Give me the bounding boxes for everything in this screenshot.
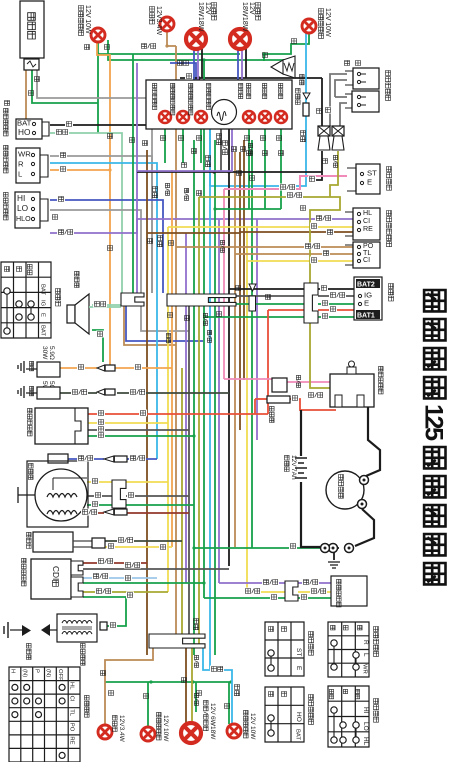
wire label 绿 <box>96 331 104 338</box>
lamp headlamp right <box>230 29 250 49</box>
wire gray from flasher to junction <box>37 70 152 293</box>
svg-text:18W: 18W <box>241 17 249 32</box>
resistor 30W <box>41 346 48 360</box>
wire orange turn switch <box>50 170 110 368</box>
lamp license plate <box>98 725 112 739</box>
wire label 绿 <box>197 136 202 141</box>
wire tan trunk vertical <box>175 46 177 634</box>
wire label 棕 <box>35 77 40 82</box>
wire rear right turn cyan <box>203 648 232 724</box>
wire label 茶 <box>343 60 351 67</box>
wire label 茶 <box>148 239 153 244</box>
wire label 绿 <box>91 501 99 508</box>
switch dimmer HI LO HLO box <box>15 192 40 228</box>
wire orange from front-left turn lamp <box>97 42 110 170</box>
wire label 绿 <box>159 544 167 551</box>
wire label 绿/黄 <box>286 192 303 199</box>
svg-text:12V3.4W: 12V3.4W <box>155 6 163 35</box>
wire label 天蓝 <box>217 134 222 145</box>
svg-text:HLO: HLO <box>16 215 31 223</box>
light control switch box lower <box>353 242 380 268</box>
wire label 绿 <box>300 594 308 601</box>
wire label 浅绿 <box>93 301 107 308</box>
spark plug <box>50 629 57 631</box>
wire label 橙 <box>168 313 173 318</box>
label starter switch <box>387 167 392 191</box>
wire position lamp tan <box>167 31 176 46</box>
lamp front-left turn signal 12V10W <box>91 28 105 42</box>
svg-text:30W: 30W <box>41 346 48 360</box>
svg-text:12V: 12V <box>162 715 169 727</box>
wire red trunk from regulator <box>88 413 268 415</box>
label main switch <box>389 284 394 302</box>
wire white bus drop to horn1 <box>321 78 323 126</box>
wire resistor1 orange row <box>60 367 97 369</box>
wire green-yellow to relay <box>310 224 330 388</box>
labels instrument cluster <box>152 83 156 109</box>
wire label 绿 <box>245 136 250 141</box>
wire black to main switch BAT2 <box>229 288 304 290</box>
wire rear right green stem <box>228 682 230 724</box>
lamp rear-right turn <box>227 724 241 738</box>
main switch contact table <box>1 262 51 338</box>
label regulator <box>28 408 33 436</box>
wire label 蓝 <box>57 196 65 203</box>
wire label 天蓝 <box>153 187 158 198</box>
wire label 棕 <box>266 295 271 300</box>
wire trigger blue-yellow row <box>68 458 104 460</box>
wire label 天蓝 <box>301 131 306 142</box>
svg-text:PO: PO <box>69 723 75 732</box>
wire label 绿 <box>289 543 297 550</box>
wire top green bus from front lamps <box>98 42 240 54</box>
wire green from flasher <box>32 70 98 103</box>
wire label 茶 <box>263 151 268 156</box>
wire label 绿 <box>105 45 110 50</box>
label brake switches <box>386 71 391 101</box>
wire label 白 <box>127 492 135 499</box>
wire label 橙 <box>77 364 85 371</box>
svg-text:BAT: BAT <box>295 729 301 740</box>
wire label 绿 <box>179 136 184 141</box>
wire label 黑 <box>324 107 332 114</box>
wire label 茶 <box>197 191 202 196</box>
wire magneto white out <box>87 495 112 497</box>
wire label 黄 <box>217 312 222 317</box>
wire label 橙 <box>59 166 67 173</box>
speedometer dial <box>212 100 237 125</box>
wire label 绿 <box>161 136 166 141</box>
svg-text:R: R <box>362 640 369 645</box>
light control switch box upper <box>353 208 380 240</box>
svg-text:5.9Ω: 5.9Ω <box>48 346 55 360</box>
svg-text:12V: 12V <box>84 5 92 18</box>
regulator rectifier box <box>35 408 88 444</box>
wire fuel gauge green <box>204 597 285 599</box>
svg-text:LO: LO <box>362 722 369 731</box>
wire CDI green <box>83 582 204 584</box>
wire gray dimmer W <box>50 156 152 293</box>
magneto coils <box>47 494 77 498</box>
switch turn WR R L box <box>16 148 40 183</box>
wire license lamp tan feed <box>105 648 153 725</box>
wire label 棕 <box>108 134 113 139</box>
svg-text:RE: RE <box>363 225 373 233</box>
wire label 茶/白 <box>304 243 321 250</box>
wire label 黄 <box>310 257 318 264</box>
junction connector long <box>167 294 236 306</box>
svg-text:LO: LO <box>17 203 29 213</box>
wire label 天蓝 <box>194 619 199 630</box>
wire label 茶 <box>232 147 237 152</box>
svg-text:125: 125 <box>420 404 448 441</box>
wire gray below junction <box>141 306 189 331</box>
magneto assembly <box>27 461 88 527</box>
battery 12V7Ah <box>295 458 307 478</box>
label starter relay <box>379 366 384 394</box>
turn flasher horn symbol <box>271 56 295 78</box>
wire label 绿/黑 <box>129 389 146 396</box>
starter motor <box>326 471 364 509</box>
svg-text:IG: IG <box>40 300 46 307</box>
svg-text:L: L <box>362 653 369 657</box>
wire label 绿/黄 <box>194 693 198 705</box>
trigger pickup box <box>48 454 68 463</box>
table turn switch <box>328 622 369 677</box>
label horn <box>75 271 80 287</box>
wire label 黄/白 <box>244 588 261 595</box>
wire label 绿/黄 <box>333 155 337 167</box>
wire right turn lamp green <box>264 33 309 61</box>
wire label 天蓝 <box>166 333 170 342</box>
side labels left switches <box>4 108 9 135</box>
wire label 茶 <box>279 151 284 156</box>
wire magneto green out <box>87 504 194 506</box>
wire label 茶 <box>237 171 242 176</box>
wire label 绿 <box>270 594 278 601</box>
flasher relay box <box>20 1 44 58</box>
fuel gauge connector <box>285 581 298 601</box>
svg-text:18W: 18W <box>197 2 205 17</box>
flasher connector <box>24 59 39 70</box>
svg-text:BAT: BAT <box>40 284 46 295</box>
magneto shaft <box>18 494 35 496</box>
node white junction <box>197 76 200 79</box>
svg-text:CDI: CDI <box>51 566 61 580</box>
wire label 黑/红 <box>97 558 114 565</box>
wire green bus under cluster <box>215 208 281 210</box>
wire label 蓝/白 <box>184 188 188 200</box>
wire label 蓝/白 <box>207 330 211 342</box>
svg-text:10W: 10W <box>324 22 332 37</box>
starter relay box <box>330 374 374 407</box>
label headlamp right <box>256 3 261 21</box>
wire starter unit yellow <box>105 546 172 548</box>
label front-right turn lamp <box>319 9 324 39</box>
main switch connector <box>304 283 318 323</box>
ignition coil box <box>57 614 97 642</box>
ring terminals <box>360 476 369 485</box>
wire label 绿 <box>97 432 105 439</box>
svg-text:HO: HO <box>18 127 31 137</box>
svg-text:HL: HL <box>363 209 372 217</box>
wire label 茶 <box>185 316 190 321</box>
wire rear-left turn green stem <box>147 682 149 727</box>
wire label 黄/白 <box>248 143 252 155</box>
svg-text:ST: ST <box>295 648 302 656</box>
wire pink to relay <box>224 378 272 380</box>
label CDI <box>22 558 27 586</box>
wire yellow to CI <box>168 226 353 228</box>
svg-text:CI: CI <box>69 696 75 702</box>
wire magneto black-red out <box>87 512 104 514</box>
wire label 浅绿 <box>55 129 69 136</box>
wire tan-white to PO <box>176 246 353 248</box>
junction connector small <box>121 293 144 306</box>
wire battery feed <box>300 410 302 456</box>
svg-text:WR: WR <box>18 150 31 159</box>
wire label 黑 <box>308 176 316 183</box>
svg-text:18W: 18W <box>197 17 205 32</box>
wire label 绿 <box>261 136 266 141</box>
wire label 红 <box>97 410 105 417</box>
wire label 黑/白 <box>124 562 141 569</box>
wire label 棕 <box>241 147 246 152</box>
svg-text:(N): (N) <box>45 669 51 677</box>
wire blue below junction <box>126 306 203 341</box>
node junctions <box>96 52 99 55</box>
wire label 黑 <box>320 285 328 292</box>
wire label 黑 <box>317 109 322 114</box>
svg-text:TL: TL <box>69 709 75 717</box>
label magneto <box>29 463 34 479</box>
wire relay to motor rings <box>366 407 380 476</box>
wire label 白 <box>51 214 59 221</box>
wire label 黄/白 <box>165 183 169 195</box>
wire label 红 <box>329 306 337 313</box>
wire label 绿/黄 <box>194 655 198 667</box>
wire regulator white <box>88 429 189 431</box>
wire label 天蓝 <box>235 685 240 696</box>
wire label 茶 <box>192 149 197 154</box>
horn speaker <box>67 305 75 323</box>
wire label 黑/红 <box>81 509 98 516</box>
rear connector <box>149 634 205 648</box>
brake switch rear box <box>352 91 379 112</box>
label ignition coil <box>81 643 86 665</box>
wire label 黑 <box>182 163 187 168</box>
wire CDI black-yellow <box>83 591 168 593</box>
svg-text:(N): (N) <box>22 669 28 677</box>
wire label 黑 <box>323 159 328 164</box>
CDI unit box <box>31 559 71 599</box>
wire label 茶 <box>182 678 187 683</box>
label speedometer <box>296 88 301 104</box>
svg-text:7Ah: 7Ah <box>290 468 297 480</box>
table horn switch <box>265 687 304 742</box>
wire blue headlight switch <box>50 200 163 293</box>
svg-text:10W: 10W <box>162 728 169 742</box>
fuel gauge box <box>331 576 367 606</box>
svg-text:12V: 12V <box>324 8 332 21</box>
diode resistor1 <box>97 365 105 371</box>
wire label 黄 <box>97 419 105 426</box>
wire tan from flasher <box>25 70 27 119</box>
magneto diode comp <box>104 509 114 515</box>
wire label 黄/红 <box>220 240 224 252</box>
wire tan to TL <box>235 253 353 255</box>
wire green bus 2 <box>108 40 292 60</box>
title vertical <box>420 290 448 584</box>
wire label 绿 <box>124 575 132 582</box>
wire black horn switch BAT <box>50 124 229 126</box>
switch horn BAT HO box <box>16 119 42 139</box>
wire CDI blue-yellow <box>83 577 157 579</box>
wire label 绿/黑 <box>71 389 88 396</box>
instrument cluster box <box>146 80 292 129</box>
wire light green horn switch <box>50 133 122 293</box>
wire tan below junction <box>124 306 176 345</box>
svg-text:BAT1: BAT1 <box>357 313 375 320</box>
wire black-white to IG <box>189 295 304 297</box>
lamp tail-brake <box>181 723 201 743</box>
svg-text:12V3.4W: 12V3.4W <box>118 715 125 743</box>
wire headlamp stems <box>193 48 195 80</box>
wire label 红 <box>291 395 299 402</box>
wire regulator yellow <box>88 422 168 424</box>
wire label 绿 <box>144 694 149 699</box>
wire white headlamp common <box>180 77 322 79</box>
lamp rear-left turn <box>141 727 155 741</box>
wire label 绿/黑 <box>117 537 134 544</box>
wire pink yellow-red to starter switch <box>224 176 347 189</box>
wire CDI green 2 to ignition coil <box>83 597 126 626</box>
wire fuel gauge yellow-white <box>247 591 285 593</box>
wire label 橙 <box>134 364 142 371</box>
wire label 橙 <box>108 246 113 251</box>
wire label 棕 <box>85 45 90 50</box>
CDI pin blocks <box>71 561 83 575</box>
wire resistor2 green-black row <box>60 392 97 394</box>
lamp position 12V3.4W <box>160 17 174 31</box>
wire ring to ground link <box>329 547 339 549</box>
svg-text:E: E <box>295 666 302 671</box>
wire yellow to CI lower <box>247 260 353 262</box>
svg-text:HI: HI <box>362 707 369 714</box>
svg-text:E: E <box>40 313 46 317</box>
label main switch table <box>56 289 61 307</box>
svg-text:H: H <box>10 669 16 673</box>
wire label 黑 <box>65 121 73 128</box>
svg-text:OFF: OFF <box>57 669 63 681</box>
trigger diode comp <box>104 456 114 462</box>
wire green to starter motor ring <box>194 547 325 549</box>
wire speaker light green <box>92 304 122 306</box>
wire regulator green <box>88 435 194 437</box>
wire speedo stems <box>209 129 211 186</box>
svg-text:HL: HL <box>69 682 75 690</box>
wire label 天蓝 <box>206 156 211 167</box>
wire label 绿 <box>250 176 255 181</box>
wire horn1 black down <box>321 151 323 172</box>
lamp front-right turn signal <box>302 19 316 33</box>
wire CDI black-white <box>83 568 229 570</box>
wire label 绿/黄 <box>203 313 207 325</box>
wire label 黄 <box>107 543 115 550</box>
label battery <box>285 455 290 471</box>
svg-text:E: E <box>364 299 369 308</box>
svg-text:R: R <box>18 160 24 169</box>
wire label 蓝/白 <box>57 229 74 236</box>
wire green main switch <box>194 303 304 305</box>
label spark plug <box>27 643 32 659</box>
label tian-lan speedo wire <box>300 74 305 84</box>
wire label 白 <box>97 426 105 433</box>
wire label 红 <box>139 410 147 417</box>
wire label 棕 <box>101 671 106 676</box>
lighting switch table <box>9 667 80 762</box>
horn 2 <box>332 126 344 136</box>
label light control switch <box>387 211 392 247</box>
wire label 黄 <box>91 478 99 485</box>
svg-text:RE: RE <box>69 736 75 744</box>
wire brown to RE <box>147 232 353 233</box>
wire label 黑/黄 <box>95 588 112 595</box>
svg-text:ST: ST <box>367 169 377 178</box>
svg-text:10W: 10W <box>84 19 92 34</box>
wire red main switch <box>268 309 304 311</box>
svg-text:CI: CI <box>363 256 370 264</box>
wire label 绿 <box>109 691 114 696</box>
wire label 蓝 <box>178 61 183 66</box>
wire trunk verticals - middle bundle <box>132 54 134 293</box>
wire tail lamp stems <box>185 648 187 723</box>
wire right turn lamp cyan speedometer line <box>305 33 307 103</box>
wire label 蓝/黄 <box>92 573 109 580</box>
wire label 蓝/黄 <box>77 455 94 462</box>
speedo resistor <box>303 103 309 116</box>
lamp headlamp left <box>186 29 206 49</box>
magneto connector <box>112 480 126 508</box>
wire horn2 green-yellow down <box>330 151 338 197</box>
svg-text:P: P <box>33 669 39 673</box>
wire label 绿/黄 <box>307 392 324 399</box>
wire label 茶 <box>143 141 148 146</box>
wire label 绿 <box>292 39 297 44</box>
wire label 绿 <box>29 91 34 96</box>
wire battery to ring <box>301 482 320 547</box>
wire label 绿 <box>299 205 307 212</box>
svg-text:WR: WR <box>362 664 368 674</box>
wire cyan turn switch <box>50 163 157 459</box>
wire green BAT1 <box>204 316 304 318</box>
wire label 绿 <box>277 136 282 141</box>
starter relay unit box <box>33 532 73 552</box>
wire label 绿 <box>184 61 189 66</box>
wire label 茶 <box>247 151 252 156</box>
label front-left turn lamp <box>79 6 84 36</box>
svg-text:E: E <box>367 178 372 187</box>
svg-text:18W: 18W <box>209 726 216 740</box>
wire starter unit green-black <box>105 540 182 542</box>
wire white headlight switch <box>50 210 141 293</box>
wire label 茶 <box>322 250 330 257</box>
wire red fuse to relay <box>255 398 267 400</box>
wire label 灰 <box>59 152 67 159</box>
wire label 蓝/白 <box>302 579 319 586</box>
wire label 蓝/白 <box>315 215 332 222</box>
wire label 绿 <box>263 53 268 58</box>
